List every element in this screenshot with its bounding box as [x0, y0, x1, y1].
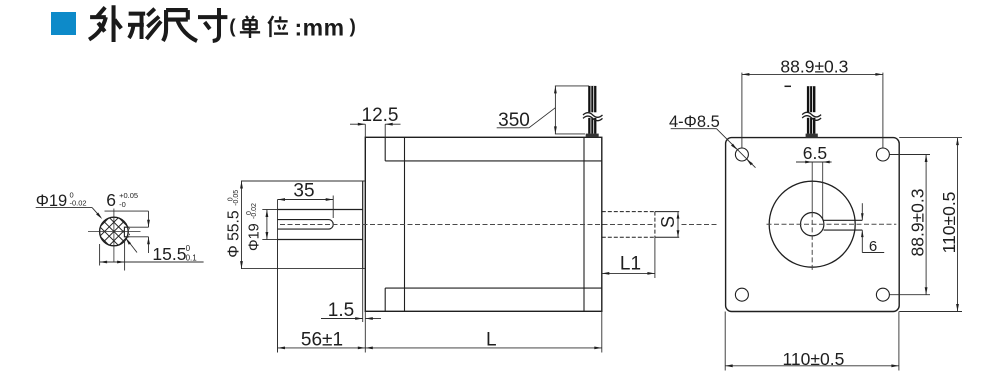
svg-text:L1: L1	[620, 253, 641, 274]
svg-text:0.1: 0.1	[186, 253, 198, 262]
svg-text:56±1: 56±1	[301, 330, 343, 351]
svg-text:110±0.5: 110±0.5	[939, 192, 959, 254]
svg-text:88.9±0.3: 88.9±0.3	[780, 57, 848, 77]
svg-text:+0.05: +0.05	[119, 191, 138, 200]
svg-text:S: S	[658, 216, 678, 228]
svg-text:L: L	[486, 330, 497, 351]
svg-text:-0.02: -0.02	[251, 203, 258, 219]
svg-text:6.5: 6.5	[803, 143, 827, 163]
svg-text:Φ19: Φ19	[247, 223, 263, 251]
svg-text:(: (	[229, 16, 236, 37]
svg-text:15.5: 15.5	[152, 244, 186, 264]
svg-text:-0.02: -0.02	[70, 199, 87, 208]
svg-text:88.9±0.3: 88.9±0.3	[907, 189, 927, 257]
svg-text:-0.05: -0.05	[233, 190, 240, 206]
svg-text:6: 6	[869, 238, 877, 255]
svg-text:1.5: 1.5	[328, 300, 354, 321]
svg-text:12.5: 12.5	[362, 105, 399, 126]
svg-text:): )	[350, 16, 356, 37]
svg-text:35: 35	[293, 181, 314, 202]
svg-text::mm: :mm	[295, 15, 345, 41]
svg-text:Φ 55.5: Φ 55.5	[226, 210, 243, 258]
svg-text:110±0.5: 110±0.5	[782, 349, 844, 369]
svg-text:-0: -0	[119, 200, 126, 209]
svg-text:6: 6	[106, 190, 116, 210]
svg-text:0: 0	[186, 244, 191, 253]
